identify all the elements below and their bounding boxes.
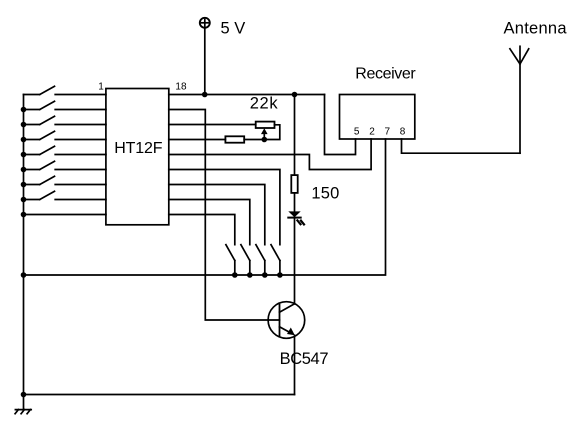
wire LED to collector bbox=[294, 218, 296, 304]
svg-text:2: 2 bbox=[369, 127, 375, 138]
wire left bus bbox=[23, 95, 25, 410]
wire IC pin17 to transistor base bbox=[169, 110, 280, 321]
wire LED column top bbox=[294, 95, 296, 176]
switch S3 bbox=[21, 116, 106, 127]
switch T3 bbox=[256, 245, 268, 278]
wire IC pin11 to switch T2 bbox=[169, 200, 250, 245]
IC U1 HT12F bbox=[106, 89, 169, 225]
wire receiver pin8 to antenna bbox=[402, 139, 521, 153]
svg-text:5: 5 bbox=[354, 127, 360, 138]
resistor R2 bbox=[225, 136, 244, 142]
wire IC pin14 to receiver pin2 bbox=[169, 139, 371, 170]
transistor Q1 BC547 bbox=[268, 302, 305, 395]
wire IC pin10 to switch T1 bbox=[169, 215, 235, 245]
svg-text:1: 1 bbox=[98, 82, 104, 93]
ground bbox=[15, 410, 31, 414]
wire IC pin9 to bus bbox=[24, 214, 106, 216]
wire resistor to LED bbox=[294, 193, 296, 212]
resistor R3 150 bbox=[291, 175, 297, 193]
svg-text:HT12F: HT12F bbox=[114, 140, 163, 157]
svg-text:5 V: 5 V bbox=[221, 19, 246, 37]
switch S4 bbox=[21, 131, 106, 142]
node rail-LED junction bbox=[292, 92, 298, 98]
svg-text:7: 7 bbox=[385, 127, 391, 138]
svg-text:Antenna: Antenna bbox=[504, 20, 568, 38]
wire rail to receiver pin5 bbox=[325, 95, 356, 155]
switch S6 bbox=[21, 161, 106, 172]
LED D1 bbox=[288, 211, 304, 224]
power symbol +5V bbox=[200, 18, 210, 95]
svg-text:BC547: BC547 bbox=[280, 350, 329, 368]
switch S7 bbox=[21, 176, 106, 187]
svg-text:Receiver: Receiver bbox=[355, 66, 416, 83]
svg-text:22k: 22k bbox=[250, 94, 279, 112]
switch T2 bbox=[241, 245, 253, 278]
svg-text:150: 150 bbox=[311, 185, 339, 203]
wire IC pin12 to switch T3 bbox=[169, 185, 265, 245]
svg-text:8: 8 bbox=[400, 127, 406, 138]
node rail-5V junction bbox=[202, 92, 208, 98]
svg-text:18: 18 bbox=[175, 82, 187, 93]
wire IC pin13 to switch T4 bbox=[169, 170, 280, 245]
wire 5V rail bbox=[169, 94, 325, 96]
wire IC pin15 to resistor bbox=[169, 139, 226, 141]
switch T4 bbox=[271, 245, 283, 278]
switch T1 bbox=[226, 245, 238, 278]
potentiometer R1 22k bbox=[256, 122, 280, 140]
antenna bbox=[510, 46, 529, 153]
wire resistor to wiper bbox=[244, 139, 264, 141]
switch S2 bbox=[21, 101, 106, 112]
switch S1 bbox=[24, 86, 106, 94]
wire IC pin16 to potentiometer bbox=[169, 124, 256, 126]
wire emitter to ground bus bbox=[24, 394, 295, 396]
receiver module bbox=[340, 95, 415, 140]
node wiper junction bbox=[262, 137, 268, 143]
switch S8 bbox=[21, 191, 106, 202]
wire switch bus to receiver pin7 bbox=[24, 139, 386, 275]
switch S5 bbox=[21, 146, 106, 157]
